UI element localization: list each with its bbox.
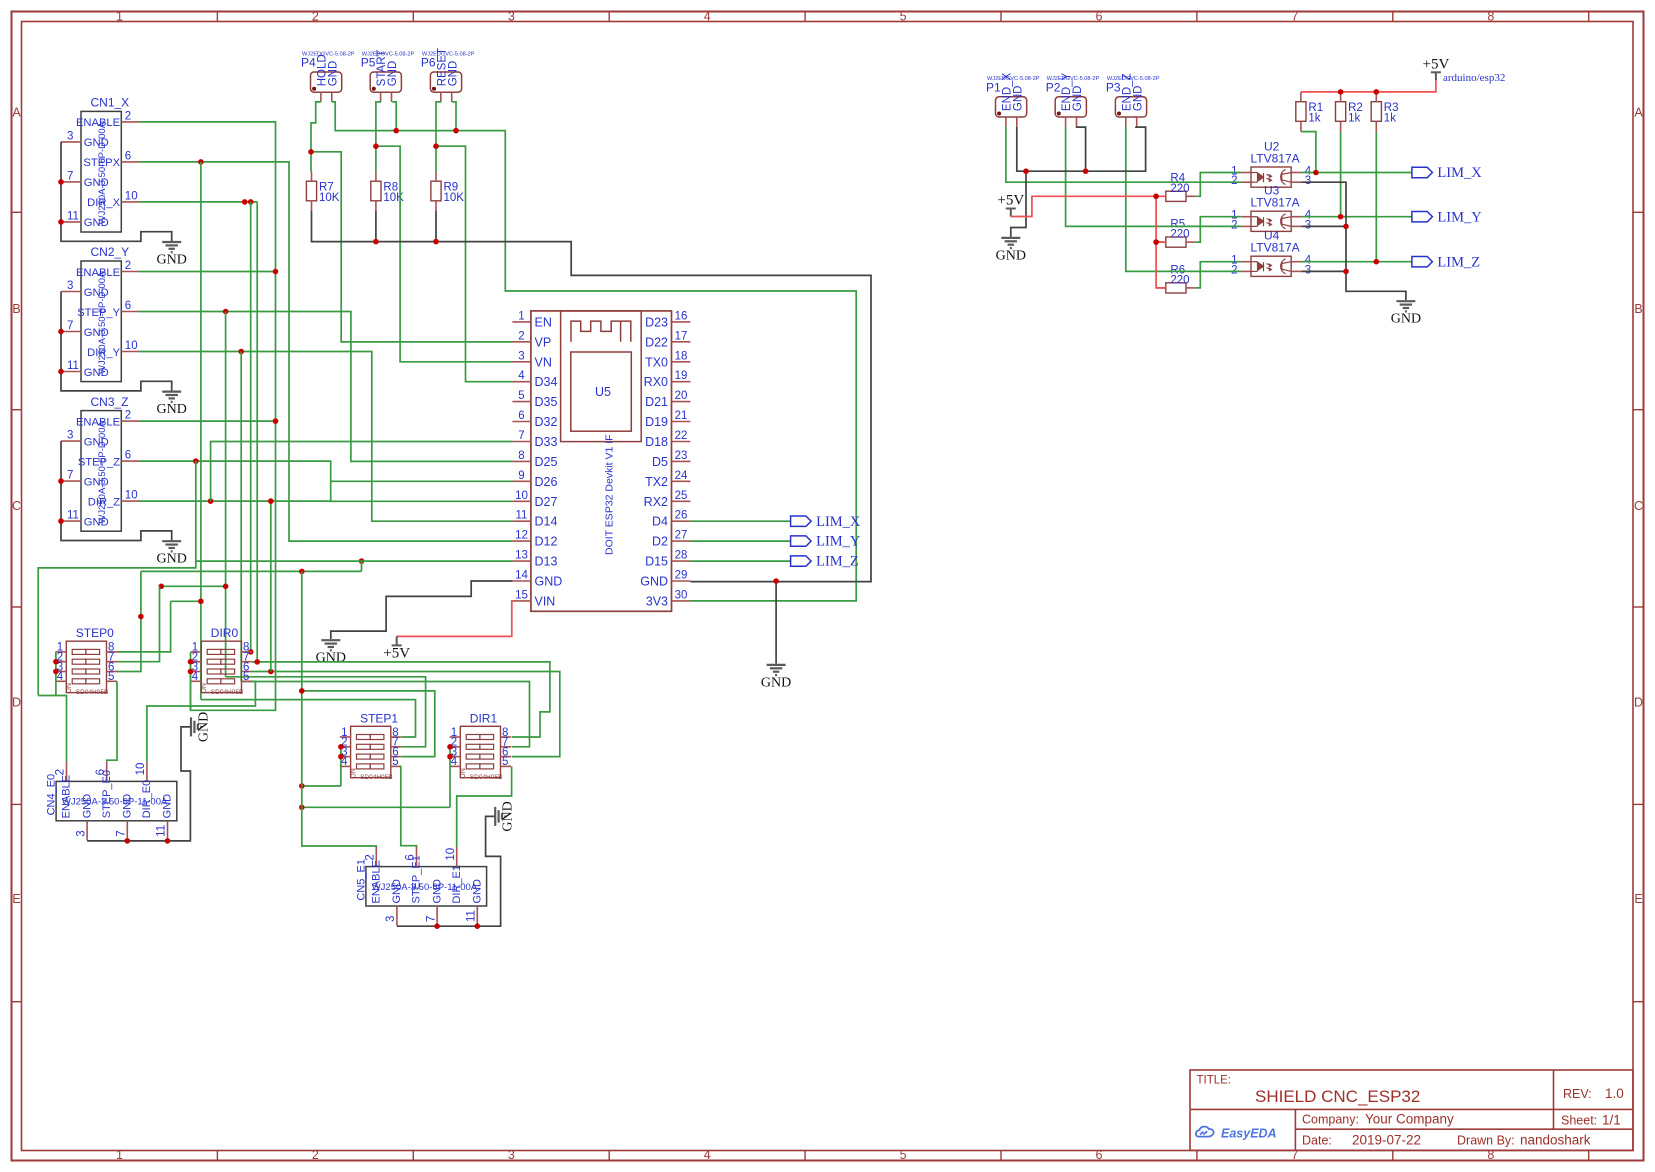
svg-text:EasyEDA: EasyEDA — [1221, 1127, 1277, 1141]
connector CN5_E1 — [366, 867, 487, 906]
pins of R4 R5 R6 — [1156, 196, 1196, 288]
wire +5v r5 drop — [1156, 196, 1166, 288]
svg-text:GND: GND — [162, 794, 174, 819]
svg-text:RX0: RX0 — [644, 375, 668, 389]
node p2 gnd j — [1083, 168, 1089, 174]
wire step1.5 to CN5.6 — [401, 766, 417, 847]
svg-text:DIR_X: DIR_X — [87, 197, 120, 209]
svg-text:2: 2 — [125, 260, 131, 272]
node dir0 p2 — [188, 659, 194, 665]
pins of P3 — [1126, 117, 1137, 127]
svg-text:A: A — [12, 106, 21, 120]
svg-text:DIR_E1: DIR_E1 — [451, 865, 463, 904]
svg-text:D12: D12 — [535, 535, 558, 549]
wire P2 END_Y to U3.2 — [1066, 127, 1241, 227]
wire p gnd rail — [1017, 127, 1146, 172]
node row stepz src — [359, 558, 365, 564]
power +5V p5v arduino — [1431, 72, 1441, 80]
svg-text:1: 1 — [116, 1148, 123, 1162]
svg-text:EN: EN — [535, 315, 552, 329]
node START junction — [373, 143, 379, 149]
net flag LIM_X (f4) — [1412, 167, 1433, 177]
svg-text:10K: 10K — [444, 192, 465, 204]
node u4.4 j — [1374, 259, 1380, 265]
node RESET junction — [433, 143, 439, 149]
svg-text:P1: P1 — [986, 80, 1001, 94]
svg-text:DOIT ESP32 Devkit V1 IF: DOIT ESP32 Devkit V1 IF — [604, 434, 616, 555]
svg-text:3: 3 — [518, 350, 524, 362]
wire stepz step1 branch — [302, 571, 435, 756]
wire R4 to U2.1 — [1196, 173, 1241, 197]
svg-text:STEP_Z: STEP_Z — [78, 456, 120, 468]
wire P3 END_Z to U4.2 — [1126, 127, 1241, 272]
svg-text:SD04H05B: SD04H05B — [360, 774, 393, 781]
svg-text:D2: D2 — [652, 535, 668, 549]
power +5V p5v left — [1006, 209, 1016, 217]
svg-text:LIM_Y: LIM_Y — [816, 534, 861, 550]
ground gnd below U5 — [767, 665, 786, 675]
wire row stepx east — [201, 700, 416, 737]
node step1 p3 — [338, 754, 344, 760]
wire dir1 left common — [449, 747, 451, 808]
svg-text:1/1: 1/1 — [1602, 1113, 1621, 1128]
svg-text:3: 3 — [1305, 264, 1311, 276]
svg-text:LTV817A: LTV817A — [1251, 152, 1300, 166]
svg-text:CN4_E0: CN4_E0 — [46, 774, 58, 816]
svg-text:30: 30 — [675, 589, 688, 601]
wire dir0 p7 tap — [252, 661, 257, 663]
node r4 +5v corner — [1153, 194, 1159, 200]
svg-text:23: 23 — [675, 450, 688, 462]
node dir0 p3 — [188, 669, 194, 675]
svg-text:22: 22 — [675, 430, 688, 442]
svg-text:GND: GND — [122, 794, 134, 819]
antenna meander of U5 — [571, 321, 631, 342]
svg-text:D22: D22 — [645, 335, 668, 349]
svg-text:3V3: 3V3 — [646, 594, 668, 608]
node row stepz j2 — [299, 569, 305, 575]
wire START branch to VN riser — [376, 146, 513, 362]
svg-text:+5V: +5V — [1423, 56, 1450, 72]
wire HOLD to R7/VP — [311, 102, 321, 172]
svg-text:D15: D15 — [645, 555, 668, 569]
svg-text:Sheet:: Sheet: — [1561, 1114, 1597, 1128]
ground gnd below U5 left — [321, 640, 340, 650]
svg-text:A: A — [1634, 106, 1643, 120]
svg-text:GND: GND — [84, 177, 109, 189]
svg-text:LIM_Z: LIM_Z — [816, 554, 859, 570]
node step0 p2 — [53, 659, 59, 665]
svg-text:5: 5 — [518, 390, 524, 402]
node enable riser j — [299, 688, 305, 694]
resistor R1 (1k) — [1296, 102, 1306, 122]
svg-text:7: 7 — [116, 830, 128, 836]
wire cn5 gnd rail — [397, 816, 501, 926]
svg-text:LIM_X: LIM_X — [1437, 165, 1482, 181]
resistor R5 (220) — [1166, 237, 1186, 247]
svg-text:19: 19 — [675, 370, 688, 382]
wire STEP_X — [139, 162, 512, 541]
svg-text:5: 5 — [900, 1148, 907, 1162]
wire row stepy east — [226, 677, 426, 747]
node diry j — [238, 349, 244, 355]
svg-text:12: 12 — [515, 530, 528, 542]
svg-text:GND: GND — [391, 879, 403, 904]
svg-text:5: 5 — [502, 756, 508, 768]
svg-text:D25: D25 — [535, 455, 558, 469]
net flag LIM_Y (f2) — [791, 536, 812, 546]
pins of P6 — [441, 92, 452, 102]
node cn2 gnd pin11 — [58, 369, 64, 375]
svg-text:3: 3 — [67, 280, 73, 292]
svg-text:D4: D4 — [652, 515, 668, 529]
wire arduino +5v — [1301, 80, 1436, 92]
node R8 gnd junction — [373, 239, 379, 245]
node row stepx j — [198, 599, 204, 605]
svg-text:GND: GND — [535, 575, 563, 589]
svg-text:GND: GND — [84, 516, 109, 528]
wire step1 common to enable riser — [302, 785, 341, 787]
svg-text:1k: 1k — [1348, 113, 1360, 125]
ground gnd p1p2p3 — [1001, 238, 1020, 248]
svg-text:GND: GND — [640, 575, 668, 589]
svg-text:10: 10 — [125, 490, 138, 502]
wire P1 END_X to U2.2 — [1006, 127, 1241, 183]
svg-text:GND: GND — [84, 137, 109, 149]
svg-text:GND: GND — [157, 253, 187, 268]
svg-text:D18: D18 — [645, 435, 668, 449]
svg-text:TX0: TX0 — [645, 355, 668, 369]
svg-text:2: 2 — [1231, 175, 1237, 187]
node cn3 gnd pin11 — [58, 518, 64, 524]
wire DIR_Z to D33 — [211, 442, 513, 502]
svg-text:2: 2 — [125, 110, 131, 122]
svg-text:20: 20 — [675, 390, 688, 402]
svg-text:2019-07-22: 2019-07-22 — [1352, 1133, 1421, 1148]
svg-text:ENABLE: ENABLE — [61, 775, 73, 818]
svg-text:3: 3 — [75, 830, 87, 836]
wire row dirx corridor — [257, 202, 550, 737]
svg-text:11: 11 — [67, 360, 79, 372]
wire START to R8 — [376, 102, 381, 172]
svg-text:3: 3 — [508, 10, 515, 24]
svg-text:14: 14 — [515, 570, 528, 582]
svg-text:11: 11 — [466, 910, 478, 922]
svg-text:CN1_X: CN1_X — [91, 96, 130, 110]
svg-text:2: 2 — [1231, 219, 1237, 231]
svg-text:SD04H05B: SD04H05B — [470, 774, 503, 781]
svg-text:GND: GND — [81, 794, 93, 819]
svg-text:GND: GND — [327, 61, 339, 87]
svg-text:ON: ON — [460, 768, 467, 779]
node gnd29 junction — [773, 578, 779, 584]
svg-text:15: 15 — [515, 589, 528, 601]
wire STEP_Y branch — [225, 312, 227, 677]
wire ENABLE cn3 — [139, 420, 276, 422]
svg-text:DIR1: DIR1 — [470, 711, 498, 725]
svg-text:2: 2 — [55, 769, 67, 775]
svg-text:GND: GND — [761, 675, 791, 690]
svg-text:GND: GND — [996, 248, 1026, 263]
node dirx dir0 j8 — [248, 649, 254, 655]
svg-text:LTV817A: LTV817A — [1251, 241, 1300, 255]
svg-text:6: 6 — [125, 450, 131, 462]
node cn4 gnd j7 — [125, 838, 131, 844]
wire row stepx corridor — [171, 600, 201, 602]
svg-text:10: 10 — [135, 763, 147, 776]
ground gnd cn4 — [191, 717, 201, 736]
wire STEP_Z branch — [38, 461, 196, 695]
svg-text:GND: GND — [197, 712, 212, 742]
svg-text:CN2_Y: CN2_Y — [91, 245, 130, 259]
svg-text:5: 5 — [900, 10, 907, 24]
svg-text:STEP_Y: STEP_Y — [77, 307, 120, 319]
pins of P4 — [321, 92, 332, 102]
wire R6 to U4.1 — [1196, 262, 1241, 288]
node r5 +5v j — [1153, 239, 1159, 245]
node step1 p2 — [338, 744, 344, 750]
wire enable to CN4 pin2 — [38, 696, 66, 762]
svg-text:24: 24 — [675, 470, 688, 482]
svg-text:11: 11 — [67, 510, 79, 522]
svg-text:RX2: RX2 — [644, 495, 668, 509]
title block — [1190, 1070, 1633, 1150]
wire R8 gnd drop — [375, 211, 377, 242]
wire row stepz corridor — [141, 570, 362, 572]
svg-text:TX2: TX2 — [645, 475, 668, 489]
svg-text:E: E — [12, 892, 20, 906]
ground gnd below CN2 — [162, 392, 181, 402]
ground gnd optos — [1396, 301, 1415, 311]
wire U4.4 to LIM_Z — [1301, 261, 1412, 263]
wire dir1.5 to CN5.10 — [457, 766, 512, 847]
svg-text:8: 8 — [518, 450, 524, 462]
node P6 common junction — [453, 128, 459, 134]
svg-text:3: 3 — [1305, 219, 1311, 231]
node dirz dir0 j — [268, 669, 274, 675]
svg-text:C: C — [1634, 499, 1643, 513]
power +5V p5v at VIN — [392, 636, 402, 645]
svg-text:P3: P3 — [1106, 80, 1121, 94]
node dir1 p3 — [447, 754, 453, 760]
wire RESET to R9 — [436, 102, 441, 172]
pins of U5 — [512, 322, 690, 601]
svg-text:4: 4 — [704, 10, 711, 24]
svg-text:nandoshark: nandoshark — [1520, 1133, 1591, 1148]
wire dirz src — [270, 501, 272, 671]
node dirz j — [208, 498, 214, 504]
wire CN2 gnd rail — [61, 292, 172, 392]
node stepx j — [198, 159, 204, 165]
svg-text:10: 10 — [125, 340, 138, 352]
wire R3 to U4.4 — [1375, 132, 1377, 262]
svg-text:7: 7 — [425, 916, 437, 922]
svg-text:STEP_E1: STEP_E1 — [411, 855, 423, 903]
svg-text:5: 5 — [392, 756, 398, 768]
svg-text:GND: GND — [84, 327, 109, 339]
svg-text:GND: GND — [84, 367, 109, 379]
svg-text:18: 18 — [675, 350, 688, 362]
svg-text:10: 10 — [515, 490, 528, 502]
net flag LIM_Y (f5) — [1412, 212, 1433, 222]
svg-text:26: 26 — [675, 510, 688, 522]
svg-text:B: B — [12, 302, 20, 316]
svg-text:+5V: +5V — [383, 645, 410, 661]
svg-text:GND: GND — [84, 287, 109, 299]
node dirx j2 — [248, 199, 254, 205]
svg-text:LTV817A: LTV817A — [1251, 196, 1300, 210]
svg-text:1k: 1k — [1308, 113, 1320, 125]
resistor R6 (220) — [1166, 283, 1186, 293]
wire row dirz corridor — [252, 672, 560, 757]
node u3.3 j — [1343, 224, 1349, 230]
resistor R8 (10K) — [371, 181, 381, 201]
svg-text:6: 6 — [125, 150, 131, 162]
svg-text:D35: D35 — [535, 395, 558, 409]
wire R1 to U2.4 — [1301, 132, 1316, 173]
svg-text:P6: P6 — [421, 56, 436, 70]
net flag LIM_Z (f3) — [791, 556, 812, 566]
svg-text:7: 7 — [1291, 10, 1298, 24]
svg-text:STEP1: STEP1 — [360, 711, 398, 725]
svg-text:D5: D5 — [652, 455, 668, 469]
wire VIN +5V — [397, 601, 513, 637]
wire +5v to resistors — [1011, 196, 1166, 216]
svg-text:2: 2 — [125, 410, 131, 422]
svg-text:GND: GND — [157, 402, 187, 417]
svg-text:ENABLE: ENABLE — [76, 117, 120, 129]
svg-text:2: 2 — [518, 330, 524, 342]
svg-text:VP: VP — [535, 335, 552, 349]
svg-text:arduino/esp32: arduino/esp32 — [1443, 72, 1505, 84]
svg-text:28: 28 — [675, 550, 688, 562]
svg-text:220: 220 — [1170, 183, 1189, 195]
svg-text:GND: GND — [1072, 86, 1084, 112]
svg-text:D33: D33 — [535, 435, 558, 449]
wire CN3 gnd rail — [61, 441, 172, 541]
connector CN4_E0 — [56, 781, 177, 820]
svg-text:13: 13 — [515, 550, 528, 562]
svg-text:D: D — [12, 696, 21, 710]
wire gnd29 drop — [775, 581, 777, 664]
net flag LIM_Z (f6) — [1412, 257, 1433, 267]
wire step0.5 to CN4.6 — [107, 681, 117, 762]
wire DIR_X — [139, 201, 257, 203]
wire STEP_X branch — [200, 162, 202, 700]
wire STEP_Z — [139, 461, 512, 501]
svg-text:3: 3 — [385, 916, 397, 922]
EasyEDA logo — [1196, 1127, 1214, 1137]
wire RESET branch to D34 riser — [436, 146, 512, 382]
wire stepz to STEP0.6 — [117, 571, 141, 671]
svg-text:SHIELD CNC_ESP32: SHIELD CNC_ESP32 — [1255, 1087, 1420, 1106]
svg-text:LIM_Y: LIM_Y — [1437, 209, 1482, 225]
svg-text:Company:: Company: — [1302, 1113, 1359, 1127]
svg-text:D21: D21 — [645, 395, 668, 409]
svg-text:D27: D27 — [535, 495, 558, 509]
wire p2 gnd drop — [1077, 127, 1086, 172]
svg-text:4: 4 — [704, 1148, 711, 1162]
resistor R2 (1k) — [1336, 102, 1346, 122]
svg-text:2: 2 — [1231, 264, 1237, 276]
svg-text:6: 6 — [125, 300, 131, 312]
svg-text:DIR_Z: DIR_Z — [88, 496, 120, 508]
svg-text:SD04H05B: SD04H05B — [211, 689, 244, 696]
node cn2 gnd pin7 — [58, 329, 64, 335]
svg-text:220: 220 — [1170, 275, 1189, 287]
svg-text:1k: 1k — [1384, 113, 1396, 125]
node step1 common j — [299, 783, 305, 789]
svg-text:B: B — [1634, 302, 1642, 316]
svg-text:9: 9 — [518, 470, 524, 482]
wire dirx to DIR0.8 — [250, 202, 252, 652]
wire D2 to LIM_Y — [690, 540, 790, 542]
svg-text:U5: U5 — [595, 385, 611, 399]
svg-text:GND: GND — [316, 651, 346, 666]
svg-text:TITLE:: TITLE: — [1197, 1075, 1232, 1087]
svg-text:D14: D14 — [535, 515, 558, 529]
node r3 +5v j — [1374, 89, 1380, 95]
svg-text:4: 4 — [518, 370, 525, 382]
svg-text:REV:: REV: — [1563, 1087, 1592, 1101]
svg-text:GND: GND — [472, 879, 484, 904]
wire row diry corridor — [241, 682, 529, 747]
node dir1 common j — [299, 805, 305, 811]
svg-text:ON: ON — [201, 683, 208, 694]
svg-text:STEP_E0: STEP_E0 — [101, 770, 113, 818]
svg-text:GND: GND — [447, 61, 459, 87]
node row stepy j2 — [159, 584, 165, 590]
ground gnd cn5 — [495, 807, 505, 826]
svg-text:29: 29 — [675, 570, 688, 582]
node r2 +5v j — [1338, 89, 1344, 95]
wire P5 common drop — [392, 102, 396, 131]
svg-text:10: 10 — [445, 848, 457, 861]
svg-text:5: 5 — [108, 671, 114, 683]
svg-text:1: 1 — [116, 10, 123, 24]
node cn4 gnd j11 — [165, 838, 171, 844]
svg-text:ENABLE: ENABLE — [76, 416, 120, 428]
svg-text:CN3_Z: CN3_Z — [91, 395, 129, 409]
resistor R4 (220) — [1166, 191, 1186, 201]
svg-text:GND: GND — [157, 552, 187, 567]
svg-text:3: 3 — [67, 430, 73, 442]
wire U3.4 to LIM_Y — [1301, 216, 1412, 218]
svg-text:10K: 10K — [383, 192, 404, 204]
wire stepz src drop — [361, 561, 363, 571]
wire cn4 gnd rail — [87, 727, 191, 841]
svg-text:GND: GND — [1012, 86, 1024, 112]
svg-text:1: 1 — [518, 310, 524, 322]
wire row stepy corridor — [160, 585, 226, 587]
svg-text:STEP0: STEP0 — [76, 626, 114, 640]
svg-text:11: 11 — [67, 210, 79, 222]
node p gnd j — [1023, 168, 1029, 174]
wire D4 to LIM_X — [690, 520, 790, 522]
svg-text:3: 3 — [508, 1148, 515, 1162]
wire DIR_Y — [139, 352, 512, 522]
svg-text:2: 2 — [312, 1148, 319, 1162]
node P5 common junction — [393, 128, 399, 134]
wire stepx to STEP0.8 — [117, 601, 171, 652]
wire dir1 common to enable riser — [302, 806, 450, 808]
wire HOLD branch to VP riser — [311, 152, 512, 342]
node cn3 gnd pin7 — [58, 478, 64, 484]
svg-text:DIR_Y: DIR_Y — [87, 347, 120, 359]
wire R5 to U3.1 — [1196, 217, 1241, 242]
svg-text:GND: GND — [84, 436, 109, 448]
svg-text:25: 25 — [675, 490, 688, 502]
